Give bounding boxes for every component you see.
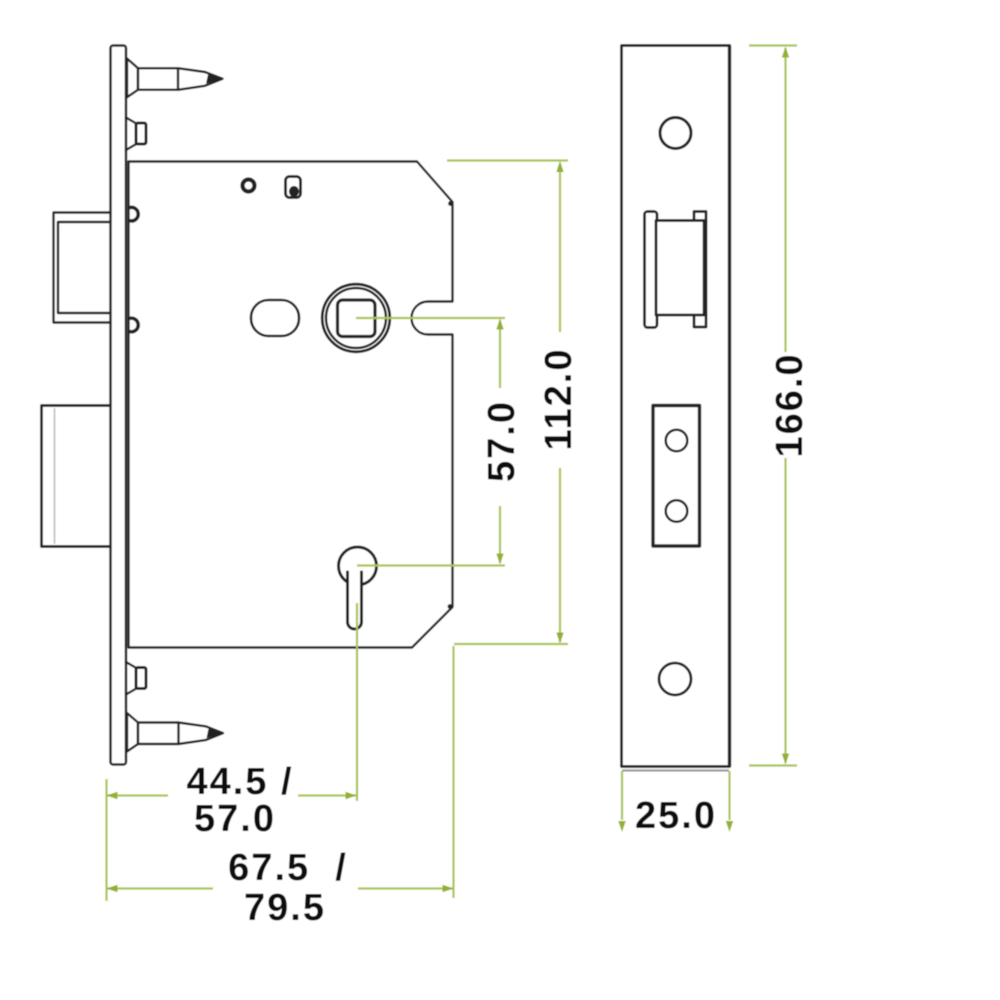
- follower inner circle: [326, 288, 386, 348]
- ext line plate bottom (166.0): [749, 764, 797, 766]
- arrow 67.5 left: [107, 885, 118, 892]
- deadbolt hole upper: [666, 430, 688, 452]
- bottom screw shank and tip: [138, 723, 223, 745]
- ext line keyhole centre (57.0): [357, 564, 505, 566]
- ext line plate top (166.0): [749, 44, 797, 46]
- top screw hole front: [660, 118, 691, 149]
- svg-text:57.0: 57.0: [481, 400, 523, 482]
- arrow 25 left: [618, 821, 625, 832]
- keyhole slot: [348, 569, 362, 629]
- faceplate front view: [622, 46, 730, 767]
- ext line faceplate front: [105, 779, 107, 901]
- ext line case rear: [452, 646, 454, 898]
- bottom screw hole front: [659, 663, 691, 695]
- dim line 112.0: [559, 163, 561, 332]
- small hole near top of case: [243, 180, 255, 192]
- dimension texts: [186, 348, 811, 930]
- arrow 57 top: [496, 319, 503, 330]
- svg-text:166.0: 166.0: [769, 352, 811, 457]
- svg-text:44.5 /: 44.5 /: [186, 761, 293, 803]
- svg-text:112.0: 112.0: [538, 348, 580, 451]
- dim line 166.0: [784, 48, 786, 352]
- ext line body bottom (112.0): [454, 643, 568, 645]
- latch retaining hook top: [130, 207, 138, 221]
- chamfer corner dot bottom: [448, 604, 453, 609]
- green arrowheads: [107, 47, 790, 893]
- arrow 166 bottom: [782, 754, 789, 765]
- latch retaining hook bottom: [130, 318, 138, 332]
- lock body (side view case): [129, 162, 453, 648]
- arrow 44.5 left: [107, 792, 118, 799]
- latch bolt front view left bar: [645, 212, 658, 328]
- dim line 57.0: [499, 320, 501, 388]
- dim line 44.5/57.0: [107, 794, 169, 796]
- ext line keyhole vertical: [356, 603, 358, 801]
- small stop pin rectangle: [286, 177, 301, 198]
- arrow 112 top: [556, 161, 563, 172]
- follower outer circle: [322, 284, 390, 352]
- deadbolt side view: [42, 406, 113, 547]
- top clip: [126, 118, 138, 151]
- faceplate side view: [111, 46, 127, 765]
- dim line 25.0 right: [728, 771, 730, 820]
- latch bolt front bottom-right nub: [694, 316, 706, 328]
- top screw head: [127, 59, 138, 98]
- arrow 112 bottom: [556, 633, 563, 644]
- chamfer corner dot top: [448, 201, 453, 206]
- bottom screw head: [127, 713, 138, 752]
- deadbolt hole lower: [666, 500, 688, 522]
- ext line follower centre (57.0): [356, 317, 505, 319]
- ext line body top (112.0): [447, 159, 568, 161]
- top screw shank and tip: [138, 68, 223, 90]
- latch bolt front face: [656, 221, 706, 316]
- deadbolt front view: [653, 406, 700, 547]
- keyhole circle: [339, 547, 377, 585]
- green dimension lines: [107, 46, 798, 902]
- svg-text:25.0: 25.0: [635, 795, 717, 837]
- dim line 25.0 left: [621, 771, 623, 820]
- svg-text:79.5: 79.5: [244, 887, 326, 929]
- arrow 166 top: [782, 47, 789, 58]
- latch bolt side view inner: [58, 222, 112, 313]
- svg-text:57.0: 57.0: [194, 798, 276, 840]
- bottom clip: [126, 662, 138, 695]
- latch bolt side view outer: [54, 213, 113, 323]
- arrow 25 right: [726, 821, 733, 832]
- arrow 44.5 right: [346, 792, 357, 799]
- oval hole left of follower: [251, 300, 299, 336]
- arrow 57 bottom: [496, 554, 503, 565]
- follower square spindle hole: [338, 300, 376, 337]
- latch bolt front top-right nub: [694, 212, 706, 222]
- arrow 67.5 right: [443, 885, 454, 892]
- dim line 67.5/79.5: [107, 887, 214, 889]
- svg-text:67.5 /: 67.5 /: [228, 847, 348, 889]
